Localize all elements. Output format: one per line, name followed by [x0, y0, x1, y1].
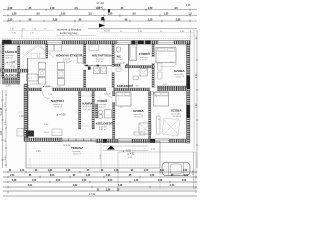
- svg-text:17,10: 17,10: [89, 192, 96, 196]
- front steps lower bar: [3, 81, 17, 84]
- svg-text:1,80: 1,80: [19, 115, 24, 118]
- window sill boxes above bottom wall left: [52, 129, 62, 136]
- tárolo left wall: [2, 44, 4, 78]
- svg-text:kerttel egység: kerttel egység: [60, 31, 77, 35]
- svg-text:FÜRDŐ: FÜRDŐ: [139, 51, 150, 56]
- svg-text:6,62 m²: 6,62 m²: [99, 128, 107, 131]
- svg-text:25,94 m²: 25,94 m²: [54, 105, 63, 108]
- svg-text:5,01: 5,01: [28, 185, 33, 187]
- svg-text:10,94 m²: 10,94 m²: [173, 115, 182, 118]
- window gap bottom right wall: [118, 139, 132, 143]
- twin washbasins: [99, 110, 103, 114]
- window sill marks above bottom wall: [134, 132, 145, 135]
- svg-text:1,35: 1,35: [164, 13, 169, 16]
- lintel block extra: [132, 41, 136, 45]
- svg-text:laminált p.: laminált p.: [134, 113, 144, 116]
- svg-text:3,62: 3,62: [1, 130, 3, 135]
- bath door arc: [147, 68, 153, 74]
- kitchen counter column A: [39, 63, 46, 70]
- svg-text:7,36: 7,36: [118, 185, 123, 187]
- top dim row 2 numbers: [8, 18, 181, 21]
- note underline: [56, 35, 96, 37]
- tárolo room outline: [3, 44, 20, 84]
- svg-text:3,62: 3,62: [73, 185, 78, 187]
- svg-text:75/2,40: 75/2,40: [118, 62, 126, 64]
- svg-text:1,50: 1,50: [12, 13, 17, 16]
- car body: [162, 163, 190, 176]
- tárolo door arc: [12, 60, 18, 66]
- washing machines: [94, 67, 100, 74]
- svg-text:SZOBA: SZOBA: [171, 108, 182, 112]
- window gap 2 in top wall: [117, 41, 131, 45]
- terrace right dim line: [100, 144, 102, 169]
- svg-text:4,90: 4,90: [66, 169, 71, 172]
- svg-text:3,00: 3,00: [108, 180, 113, 182]
- bath bottom wall: [125, 66, 154, 68]
- floor tile dots hall area: [96, 91, 113, 138]
- shelf lines in pantry: [81, 95, 92, 97]
- terrace step line: [26, 164, 160, 166]
- left outer wall lower: [24, 84, 28, 138]
- dark lintel block right: [146, 41, 151, 45]
- svg-text:TÁROLÓ: TÁROLÓ: [5, 49, 18, 54]
- svg-text:1,50: 1,50: [182, 180, 187, 182]
- svg-text:burkolat: burkolat: [63, 58, 71, 61]
- mullion ticks glass door: [69, 138, 92, 141]
- bottom dim line 3: [3, 181, 197, 183]
- svg-text:3,00: 3,00: [56, 180, 61, 182]
- svg-text:17,62 m²: 17,62 m²: [73, 152, 82, 155]
- top dim line C: [3, 20, 197, 22]
- svg-text:1,50/2,40: 1,50/2,40: [30, 84, 39, 86]
- svg-text:1,50: 1,50: [108, 13, 113, 16]
- svg-text:burkolat: burkolat: [6, 54, 14, 57]
- top dim line B: [3, 15, 197, 17]
- shower: [140, 69, 148, 77]
- svg-text:HÁZTARTÁSI H.: HÁZTARTÁSI H.: [92, 53, 113, 58]
- door gap in hall right wall: [112, 96, 115, 102]
- north/section triangle: [99, 24, 105, 28]
- door gap utility wall: [112, 67, 115, 73]
- bottom dim line 1: [3, 171, 197, 173]
- insulation dotted strip: [28, 92, 30, 136]
- svg-text:TERASZ: TERASZ: [71, 146, 83, 150]
- scattered door size labels: [29, 62, 178, 121]
- svg-text:5,01: 5,01: [1, 110, 3, 115]
- svg-text:1,65 m²: 1,65 m²: [116, 58, 123, 61]
- tárolo right wall: [18, 46, 20, 84]
- bathtub: [130, 45, 137, 61]
- svg-text:NAPPALI: NAPPALI: [51, 99, 64, 103]
- bottom dim line 4: [3, 186, 197, 188]
- svg-text:12,84 m²: 12,84 m²: [176, 75, 185, 78]
- svg-text:1,50/2,40: 1,50/2,40: [44, 86, 53, 88]
- terrace outline: [26, 142, 160, 169]
- bedroom1 side furniture: [158, 63, 163, 70]
- top wall hatched band: [2, 41, 190, 45]
- svg-text:1,40: 1,40: [134, 179, 139, 182]
- terrace-driveway divider extension: [159, 168, 161, 189]
- svg-text:laminált p.: laminált p.: [172, 112, 182, 115]
- svg-text:1,40: 1,40: [86, 174, 91, 177]
- svg-text:burkolat: burkolat: [99, 103, 107, 106]
- tárolo outer dim line: [0, 44, 2, 84]
- pantry left wall: [79, 91, 81, 129]
- bottom dim line 2: [3, 176, 197, 178]
- dining table faint: [31, 54, 38, 59]
- small steps outside bottom-left: [17, 129, 24, 137]
- bathroom right wall: [152, 44, 154, 88]
- kitchen counter column B: [58, 63, 65, 70]
- bath2 left wall: [96, 104, 98, 118]
- svg-text:1,40: 1,40: [6, 85, 11, 87]
- gable ceiling line inner: [24, 44, 52, 55]
- svg-text:3,62: 3,62: [196, 103, 198, 108]
- wall right of étkező gable zone: [46, 44, 48, 58]
- bedroom1 bottom wall: [157, 86, 190, 89]
- car windshield lines: [168, 163, 170, 176]
- svg-text:4,95: 4,95: [186, 5, 191, 7]
- door arc hall-szoba2: [106, 91, 113, 98]
- door arc hall-szoba3: [150, 91, 157, 98]
- svg-text:1,50: 1,50: [158, 180, 163, 182]
- svg-text:4,85 m²: 4,85 m²: [6, 57, 14, 60]
- door arc kitchen-nappali: [42, 91, 50, 99]
- wc washbasin: [116, 68, 121, 72]
- dark block upper right wall: [187, 76, 190, 89]
- svg-text:1,50: 1,50: [20, 170, 25, 172]
- section triangle bottom: [107, 146, 115, 150]
- fridge box kitchen right: [78, 56, 84, 63]
- door gap in bath bottom wall: [147, 65, 153, 68]
- wall right of utility: [112, 44, 114, 88]
- pantry right wall: [92, 91, 94, 129]
- bed bottom-middle: [116, 92, 131, 106]
- utility divider line: [84, 65, 114, 67]
- dark block on bottom wall 2: [150, 139, 156, 143]
- gable ceiling line outer: [22, 46, 54, 58]
- driveway dims: [103, 145, 148, 147]
- kitchen top cabinets: [47, 45, 54, 52]
- svg-text:4,40 m²: 4,40 m²: [99, 106, 107, 109]
- pointer line to triangle: [103, 21, 105, 29]
- bottom dim line 5: [3, 190, 197, 192]
- svg-text:SZOBA: SZOBA: [174, 69, 185, 73]
- svg-text:1,50: 1,50: [10, 175, 15, 177]
- tick marks top lines: [8, 9, 190, 23]
- wc wall bottom: [114, 64, 128, 66]
- window gap 1 in top wall: [47, 41, 62, 45]
- line under gable: [28, 58, 48, 60]
- svg-text:1,40: 1,40: [48, 169, 53, 172]
- top dim line A: [3, 9, 197, 11]
- svg-text:SZOBA: SZOBA: [133, 109, 144, 113]
- svg-text:4,73: 4,73: [170, 184, 175, 187]
- svg-text:burkolat: burkolat: [140, 56, 148, 59]
- bottom dim line 6: [3, 195, 197, 197]
- top dim line D right: [88, 28, 197, 30]
- wall between kitchen and utility: [84, 44, 86, 64]
- sink in bath: [133, 76, 139, 80]
- svg-text:17,40: 17,40: [96, 1, 104, 5]
- wardrobe bedroom2: [139, 123, 151, 134]
- svg-text:5,00: 5,00: [184, 175, 189, 177]
- dark lintel bottom left: [26, 131, 34, 137]
- svg-text:3,00: 3,00: [50, 175, 55, 177]
- bottom ticks: [8, 171, 196, 193]
- vertical interior wall left of kitchen: [27, 58, 29, 138]
- dark block lower right wall: [187, 105, 190, 118]
- terrace paving dots: [26, 142, 160, 169]
- faint annotation row right: [120, 31, 185, 33]
- svg-text:±0,00: ±0,00: [104, 29, 111, 32]
- kamra door arc: [86, 91, 92, 97]
- svg-text:5,36: 5,36: [12, 180, 17, 182]
- svg-text:burkolat: burkolat: [83, 105, 91, 108]
- utility top cabinet: [89, 45, 99, 51]
- wall right of hall: [113, 91, 115, 139]
- svg-text:▲ 4,52: ▲ 4,52: [127, 153, 135, 156]
- dim pointer tick left: [21, 29, 23, 39]
- svg-text:1,50: 1,50: [61, 13, 66, 16]
- svg-text:1,50: 1,50: [183, 170, 188, 172]
- svg-text:10,94 m²: 10,94 m²: [135, 116, 144, 119]
- front steps upper bar: [1, 69, 29, 72]
- closet box entry: [27, 74, 39, 81]
- boiler dark blob: [88, 67, 91, 70]
- svg-text:4,90: 4,90: [196, 73, 198, 78]
- svg-text:1,41 m²: 1,41 m²: [83, 108, 91, 111]
- glass door to terrace (thin lines): [62, 138, 96, 140]
- svg-text:1,50: 1,50: [150, 175, 155, 177]
- svg-text:▲ +0,00: ▲ +0,00: [6, 61, 16, 64]
- bed bottom-right: [154, 92, 169, 106]
- tárolo interior lines: [4, 63, 17, 65]
- wall between bottom bedrooms: [149, 91, 151, 139]
- top dim row numbers: [12, 13, 193, 16]
- svg-text:gard.: gard.: [28, 77, 33, 79]
- wc door gap: [121, 64, 126, 67]
- bottom wall left segment: [24, 138, 62, 141]
- svg-text:burkolat: burkolat: [99, 125, 107, 128]
- svg-text:3,62: 3,62: [160, 170, 165, 172]
- svg-text:1,80: 1,80: [36, 151, 41, 153]
- bottom row extra numbers: [97, 189, 120, 191]
- dark lintel block left: [138, 41, 143, 45]
- dark block top-left wall: [3, 40, 12, 44]
- svg-text:1,50: 1,50: [32, 180, 37, 182]
- right margin dim line lower: [193, 152, 195, 189]
- door gap 1 central wall: [42, 88, 52, 91]
- small dark marker upper: [108, 9, 110, 12]
- svg-text:▲ +0,00: ▲ +0,00: [56, 114, 66, 117]
- svg-text:90/2,40: 90/2,40: [148, 94, 156, 96]
- roof overhang dashed line above top wall: [2, 38, 190, 40]
- svg-text:burkolat: burkolat: [96, 57, 104, 60]
- svg-text:90 19: 90 19: [44, 132, 50, 134]
- dark block on bottom wall: [103, 139, 107, 143]
- svg-text:-0,02: -0,02: [10, 67, 16, 69]
- svg-text:laminált p.: laminált p.: [53, 103, 63, 106]
- door gap 2 central wall: [106, 88, 113, 91]
- svg-text:1,50: 1,50: [82, 180, 87, 182]
- svg-text:4,90: 4,90: [106, 174, 111, 177]
- svg-text:ELŐLÉPCSŐ: ELŐLÉPCSŐ: [2, 73, 20, 78]
- svg-text:6,40 m²: 6,40 m²: [140, 59, 148, 62]
- bottom wall right segment: [96, 139, 187, 143]
- wc door arc: [121, 66, 127, 72]
- front steps middle bar: [3, 78, 17, 80]
- svg-text:1,50: 1,50: [144, 170, 149, 172]
- svg-text:burkolat: burkolat: [73, 150, 81, 153]
- door gap 3 central wall: [150, 88, 157, 91]
- armchair diagonal bedroom3: [162, 118, 180, 136]
- marker blob: [102, 17, 105, 20]
- svg-text:KAMRA: KAMRA: [83, 101, 93, 105]
- bed top-right bedroom: [156, 48, 176, 63]
- svg-text:WC: WC: [117, 55, 121, 59]
- driveway outline: [118, 152, 196, 189]
- wc fixture: [117, 47, 121, 52]
- door gap bathroom right wall: [152, 57, 155, 63]
- svg-text:5,51 m²: 5,51 m²: [96, 60, 104, 63]
- floor tile dots kitchen area: [28, 44, 86, 88]
- svg-text:tervezett új főbejárat: tervezett új főbejárat: [57, 28, 82, 32]
- svg-text:laminált p.: laminált p.: [175, 73, 185, 76]
- svg-text:90/2,40: 90/2,40: [104, 94, 112, 96]
- window gap 3 in top wall: [158, 41, 174, 45]
- tall cabinet bedroom3: [157, 116, 161, 134]
- faint annotation row left: [10, 29, 47, 35]
- wc right wall: [128, 44, 130, 88]
